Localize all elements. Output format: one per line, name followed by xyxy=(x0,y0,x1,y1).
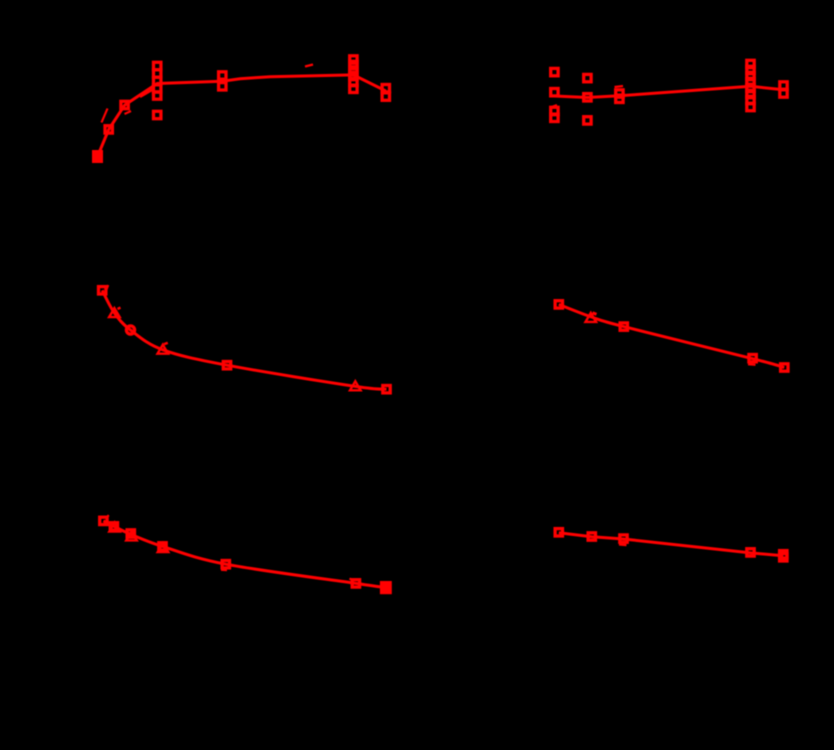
panel TR square x554 y111 xyxy=(551,107,558,114)
panel MR open square p5 xyxy=(781,364,788,371)
panel TR square stack x750 #7 xyxy=(747,96,754,103)
panel TL dashed fragment d xyxy=(125,111,132,114)
panel BR open square p3 xyxy=(620,535,627,542)
panel TL square stack x157 #1 xyxy=(154,62,161,69)
panel BL dash tick p1 xyxy=(107,515,109,517)
panel TR square x587 y97 xyxy=(584,94,591,101)
panel BL dash below p5 xyxy=(221,569,227,572)
panel TL square stack x353 #5 xyxy=(350,78,357,85)
panel TR square stack x750 #3 xyxy=(747,72,754,79)
panel BL open square p3 xyxy=(127,530,134,537)
panel TR square stack x750 #2 xyxy=(747,66,754,73)
panel TR square stack x750 #6 xyxy=(747,90,754,97)
panel ML triangle p6 xyxy=(350,381,361,390)
panel TR square x619 lower xyxy=(616,95,623,102)
panel BL triangle p4 xyxy=(158,543,169,552)
panel BR dash below p3 xyxy=(619,543,627,546)
panel ML dash tick p2 xyxy=(118,308,121,309)
panel TL square stack x353 #1 xyxy=(350,56,357,63)
panel MR triangle p2 xyxy=(586,313,597,322)
panel BL triangle p2 xyxy=(109,523,120,532)
panel MR open square p4 xyxy=(749,355,756,362)
panel ML triangle p4 xyxy=(158,345,169,354)
panel TL square stack x157 #5 xyxy=(154,92,161,99)
panel TL square stack x353 #2 xyxy=(350,61,357,68)
panel ML dash tick p1 xyxy=(107,285,109,290)
panel TL square x386 lower xyxy=(382,93,389,100)
panel BL filled square p7 xyxy=(380,581,392,594)
panel TL square stack x353 #4 xyxy=(350,72,357,79)
panel TL dashed fragment b xyxy=(140,90,153,98)
panel TL square stack x353 #3 xyxy=(350,67,357,74)
panel MR dash below p4 xyxy=(748,363,756,366)
panel top-right solid series line xyxy=(554,86,783,97)
panel bottom-left solid series curve xyxy=(103,521,386,588)
panel BR open square p1 xyxy=(555,529,562,536)
panel ML open square p1 xyxy=(99,287,106,294)
panel bottom-right solid series line xyxy=(559,533,784,556)
panel MR dash wedge p2 xyxy=(593,313,597,315)
panel BR square p5 upper xyxy=(780,551,787,558)
panel BL triangle p3 xyxy=(126,531,137,540)
panel TR square stack x750 #8 xyxy=(747,103,754,110)
panel TR square x554 y72 xyxy=(551,68,558,75)
panel ML open square p7 xyxy=(383,386,390,393)
panel BL open square p1 xyxy=(100,517,107,524)
panel ML open square p5 xyxy=(223,362,230,369)
panel TR square stack x750 #5 xyxy=(747,84,754,91)
panel TR square x587 y78 xyxy=(584,74,591,81)
panel TR square x783 lower xyxy=(780,90,787,97)
panel TL square x222 lower xyxy=(219,83,226,90)
panel BL open square p2 xyxy=(110,523,117,530)
panel BL dash tail p6 xyxy=(350,579,353,581)
panel TL filled square marker p1 xyxy=(92,150,103,163)
panel ML dash tick p4 xyxy=(164,343,168,344)
panel TR dashed fragment b xyxy=(550,105,557,108)
panel TL dashed fragment c xyxy=(305,65,313,67)
panel TL square x157 low xyxy=(154,111,161,118)
panel TR square stack x750 #1 xyxy=(747,60,754,67)
panel BR square p5 lower xyxy=(780,554,787,561)
panel TR square stack x750 #4 xyxy=(747,78,754,85)
panel TL square stack x157 #4 xyxy=(154,85,161,92)
panel BL open square p4 xyxy=(159,543,166,550)
panel TR square x619 upper xyxy=(616,90,623,97)
panel BL open square p6 xyxy=(352,580,359,587)
panel TL square x222 upper xyxy=(219,72,226,79)
panel TR dashed fragment a xyxy=(615,86,624,87)
panel TR square x554 y92 xyxy=(551,89,558,96)
panel BR open square p4 xyxy=(747,549,754,556)
panel TL open square p2 xyxy=(105,126,112,133)
panel BL open square p5 xyxy=(222,561,229,568)
panel MR open square p3 xyxy=(620,323,627,330)
panel ML triangle p2 xyxy=(109,308,120,317)
panel ML circle p3 xyxy=(126,326,134,334)
panel TL square x386 upper xyxy=(382,85,389,92)
panel TR square x587 y120 xyxy=(584,117,591,124)
panel TR square x554 y118 xyxy=(551,114,558,121)
panel mid-right solid series curve xyxy=(559,304,785,367)
panel TL open square p3 xyxy=(121,101,128,108)
panel TL square stack x353 #6 xyxy=(350,85,357,92)
panel BR open square p2 xyxy=(588,533,595,540)
panel MR open square p1 xyxy=(555,301,562,308)
panel TL square stack x157 #3 xyxy=(154,77,161,84)
panel top-left solid series line xyxy=(98,75,386,157)
panel TL dashed fragment a xyxy=(102,109,108,123)
panel mid-left solid series curve xyxy=(102,290,386,389)
panel TL square stack x157 #2 xyxy=(154,70,161,77)
panel TR square x783 upper xyxy=(780,82,787,89)
